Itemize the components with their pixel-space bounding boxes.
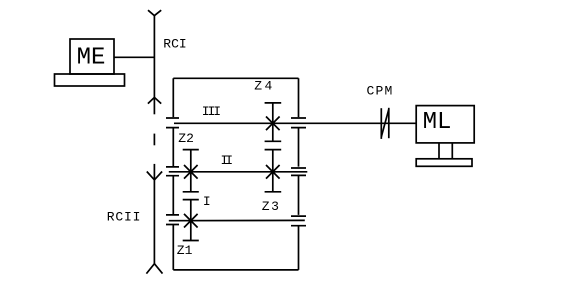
svg-text:Z2: Z2 <box>178 131 194 146</box>
up arrowhead <box>148 97 161 103</box>
svg-text:ML: ML <box>423 109 452 136</box>
left wall segments <box>172 78 174 270</box>
bearing right wall shaft I <box>291 216 306 226</box>
svg-text:ME: ME <box>77 45 106 72</box>
svg-text:I: I <box>203 194 211 209</box>
machine ML body <box>416 106 474 143</box>
motor ME body <box>70 39 114 74</box>
gear Z1 on shaft I <box>183 200 199 241</box>
top fork <box>148 10 161 15</box>
gear Z4 on shaft III <box>265 103 282 141</box>
machine ML stem <box>439 143 452 159</box>
wire lower solid segment <box>153 164 155 264</box>
bearing left wall shaft I <box>166 215 179 225</box>
shaft III <box>174 122 416 124</box>
svg-text:Z4: Z4 <box>254 79 275 94</box>
bottom wall <box>173 269 298 271</box>
svg-text:III: III <box>202 104 221 119</box>
belt drive RCI/RCII vertical line <box>146 10 162 273</box>
wire motor shaft to belt <box>114 56 154 58</box>
svg-text:CPM: CPM <box>367 83 394 98</box>
shaft I <box>169 219 305 221</box>
right wall segments <box>298 78 300 270</box>
coupling CPM <box>381 108 389 139</box>
svg-text:Z1: Z1 <box>177 243 193 258</box>
down arrowhead <box>147 172 162 180</box>
bearing right wall shaft III <box>291 118 306 128</box>
bearing right wall shaft II <box>291 168 306 175</box>
gear Z3 on shaft II <box>265 150 282 192</box>
svg-text:RCII: RCII <box>107 209 141 224</box>
top wall <box>173 77 298 79</box>
bottom fork <box>146 264 162 274</box>
machine ML base <box>416 159 472 167</box>
wire upper solid segment <box>153 16 155 115</box>
motor ME base <box>55 74 125 86</box>
svg-text:RCI: RCI <box>163 37 186 52</box>
shaft II <box>169 171 307 173</box>
dash segment <box>153 134 155 146</box>
svg-text:II: II <box>221 153 233 168</box>
gear Z2 on shaft II <box>183 150 199 192</box>
svg-text:Z3: Z3 <box>262 199 281 214</box>
bearing left wall shaft II <box>166 167 179 176</box>
bearing left wall shaft III <box>166 118 179 128</box>
gearbox housing <box>173 78 298 270</box>
